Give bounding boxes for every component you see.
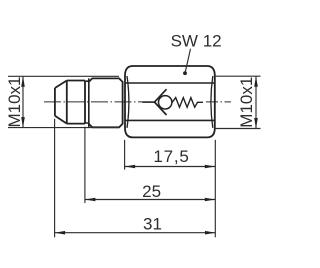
left M10x1 arrow up [21, 76, 25, 87]
check valve ball [159, 96, 172, 109]
dimension 31 arrow left [55, 231, 66, 235]
sealing head cylinder [67, 81, 85, 124]
svg-text:17,5: 17,5 [153, 147, 189, 166]
cone slants [55, 81, 67, 124]
cone tip face [54, 88, 56, 116]
hex face line lower [125, 119, 215, 121]
centerline (dash-dot axis) [44, 101, 143, 103]
check valve seat V [155, 89, 167, 115]
hex chamfer arc right [211, 76, 213, 128]
dimension 31 line [55, 232, 216, 234]
dimension 17,5 arrow left [125, 165, 136, 169]
extension line from cone tip [54, 119, 56, 238]
right M10x1 text [237, 77, 256, 128]
centerline right portion [206, 101, 231, 103]
hex face line upper [125, 82, 215, 84]
thread section M10x1 left [89, 78, 123, 127]
extension line from head end [84, 127, 86, 203]
left M10x1 text [5, 76, 24, 127]
hex body SW12 outline [125, 66, 215, 137]
right M10x1 dimension line [255, 76, 257, 128]
extension line from hex left [124, 140, 126, 170]
SW 12 leader dot [183, 71, 187, 75]
dimension 17,5 arrow right [205, 165, 216, 169]
svg-text:M10x1: M10x1 [237, 77, 256, 128]
extension line from hex right [214, 140, 216, 238]
dimension 31 arrow right [205, 231, 216, 235]
dimension 25 arrow left [85, 198, 96, 202]
left M10x1 arrow down [21, 117, 25, 128]
check valve symbol lead line [142, 101, 154, 103]
dimension 25 line [85, 199, 215, 201]
left M10x1 extension lines [8, 76, 119, 127]
right M10x1 extension lines [215, 76, 261, 128]
spring [172, 98, 203, 108]
SW 12 leader line [185, 49, 190, 73]
svg-text:M10x1: M10x1 [5, 76, 24, 127]
svg-text:31: 31 [143, 214, 162, 233]
left M10x1 dimension line [22, 76, 24, 127]
right M10x1 arrow up [254, 76, 258, 87]
right M10x1 arrow down [254, 118, 258, 129]
undercut groove [85, 78, 89, 127]
dimension 25 arrow right [205, 198, 216, 202]
dimension 17,5 line [125, 166, 216, 168]
hex chamfer arc left [127, 76, 129, 128]
svg-text:25: 25 [142, 182, 161, 201]
svg-text:SW 12: SW 12 [171, 31, 222, 50]
